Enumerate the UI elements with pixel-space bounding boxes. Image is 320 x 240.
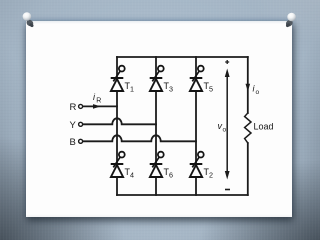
svg-text:B: B [70, 137, 76, 148]
wire phase R [83, 105, 117, 107]
node Y terminal [79, 122, 83, 126]
minus sign [225, 189, 230, 191]
wire phase Y with hop over leg1 [83, 118, 156, 124]
svg-text:Y: Y [70, 120, 77, 131]
wire leg 1 (T1/T4) [116, 57, 118, 195]
wire phase B with hops over leg1 and leg2 [83, 135, 196, 141]
measurement arrow v_o (double headed) [225, 69, 230, 180]
wire leg 3 (T5/T2) [195, 57, 197, 195]
svg-text:6: 6 [169, 171, 173, 180]
node B terminal [79, 139, 83, 143]
pushpin left [23, 12, 35, 28]
svg-text:3: 3 [169, 85, 173, 94]
thyristor T2 [190, 152, 204, 177]
thyristor T3 [150, 66, 164, 91]
thyristor T4 [111, 152, 125, 177]
wire leg 2 (T3/T6) [155, 57, 157, 195]
svg-text:Load: Load [254, 122, 274, 132]
arrow i_o on right rail [246, 84, 251, 92]
svg-text:1: 1 [130, 85, 134, 94]
thyristor T5 [190, 66, 204, 91]
svg-text:o: o [256, 89, 260, 96]
labels [70, 102, 77, 148]
wire right rail upper [247, 57, 249, 113]
slide sheet [26, 21, 292, 217]
thyristor T6 [150, 152, 164, 177]
resistor Load zigzag [245, 113, 251, 143]
plus sign [225, 60, 229, 64]
svg-text:5: 5 [209, 85, 213, 94]
svg-text:R: R [70, 102, 77, 113]
wire top rail [117, 56, 248, 58]
thyristor T1 [111, 66, 125, 91]
arrow i_R on phase R [93, 104, 101, 109]
svg-text:2: 2 [209, 171, 213, 180]
pushpin right [285, 13, 296, 28]
svg-text:4: 4 [130, 171, 134, 180]
wire bottom rail [117, 194, 248, 196]
svg-text:R: R [96, 98, 101, 105]
node R terminal [79, 104, 83, 108]
wire right rail lower [247, 143, 249, 195]
svg-text:o: o [223, 127, 227, 134]
